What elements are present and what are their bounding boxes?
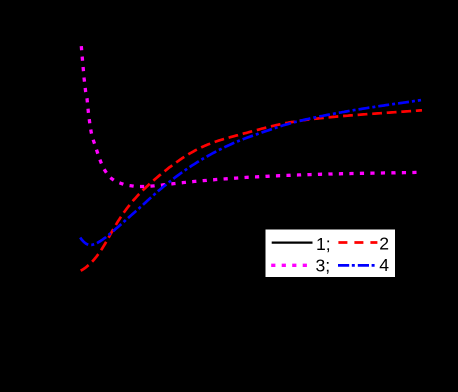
svg-text:3;: 3; bbox=[316, 255, 331, 275]
svg-text:1;: 1; bbox=[316, 234, 331, 254]
svg-text:4: 4 bbox=[379, 255, 389, 275]
svg-text:2: 2 bbox=[379, 234, 389, 254]
